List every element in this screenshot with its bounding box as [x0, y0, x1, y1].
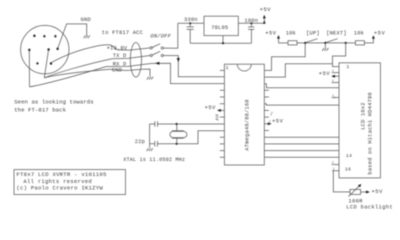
node dot gnd rail [222, 42, 224, 44]
wire RX D line [106, 63, 224, 83]
arrow down on TXD wire [177, 58, 180, 62]
svg-text:1: 1 [226, 65, 229, 71]
svg-text:100R: 100R [348, 198, 363, 204]
wire TX D line [112, 56, 150, 59]
supply +5V backlight [366, 191, 370, 194]
svg-text:+5V: +5V [265, 31, 277, 37]
svg-text:LCD 16x2: LCD 16x2 [360, 102, 366, 129]
svg-text:14: 14 [346, 153, 352, 159]
switch SW1 pole2 blade [152, 51, 160, 55]
wire IC pin R5 to LCD pin6 [264, 104, 339, 105]
ground near ellipse [147, 77, 153, 80]
node B NEXT left [324, 42, 326, 44]
svg-text:+5V: +5V [319, 71, 331, 77]
wire left vertical 22p [149, 124, 151, 148]
wire sweep from bottom-right pin to +13.8V line [51, 45, 118, 63]
wire IC data D4 [264, 136, 339, 138]
ground IC left pin [216, 115, 219, 120]
wire IC left gnd pin [220, 116, 225, 118]
resistor R3 100R [350, 189, 361, 194]
wire from mid-center pin down [44, 50, 48, 78]
ground under NEXT [322, 48, 328, 51]
wire +13.8V line [118, 48, 150, 50]
DIN pin dots middle row [28, 49, 30, 51]
node dot 100n [250, 22, 252, 24]
DIN connector circle [21, 25, 69, 73]
switch SW1 pole1 blade [152, 44, 160, 48]
wire GND line to chassis [110, 69, 150, 76]
IC U1 ATmega box [224, 64, 264, 165]
svg-text:78L05: 78L05 [211, 25, 228, 31]
capacitor C4 22p bottom plates [155, 141, 158, 147]
ground rail under 78L05 [190, 42, 251, 44]
wire sweep to TX D line [44, 59, 112, 78]
node A UP left [304, 42, 306, 44]
wire LCD pin16 to backlight resistor [333, 171, 350, 192]
svg-text:(c) Paolo Cravero IK1ZYW: (c) Paolo Cravero IK1ZYW [16, 184, 103, 191]
DIN pin cross 2 top [54, 35, 57, 38]
svg-text:based on Hitachi HD44780: based on Hitachi HD44780 [368, 92, 374, 174]
svg-text:XTAL is 11.0592 MHz: XTAL is 11.0592 MHz [123, 157, 185, 163]
wire stub ground under node B [324, 43, 326, 48]
svg-text:10k: 10k [354, 31, 364, 37]
svg-text:22p: 22p [135, 139, 145, 145]
title box [14, 170, 126, 195]
wire output rail [238, 22, 264, 24]
node dot 330n [189, 22, 191, 24]
wire sweep to GND line [44, 69, 110, 78]
wire button row baseline [305, 42, 346, 44]
node C NEXT right [345, 42, 347, 44]
wire resistor to +5V [361, 191, 366, 193]
wire IC data D5 [264, 143, 339, 145]
svg-text:Seen as looking towards: Seen as looking towards [14, 99, 94, 106]
wire IC pin R2 to LCD junction [264, 64, 332, 77]
svg-text:+5V: +5V [260, 7, 272, 13]
wire node A down to IC pin R1 [264, 43, 305, 71]
svg-text:16: 16 [345, 167, 351, 173]
wire from pole2 down to IC (TXD) [163, 56, 224, 77]
wire 78L05 gnd pin [222, 36, 224, 44]
svg-text:LCD backlight: LCD backlight [346, 205, 393, 211]
svg-text:[NEXT]: [NEXT] [326, 31, 347, 37]
svg-text:ON/OFF: ON/OFF [150, 33, 171, 39]
svg-text:+5V: +5V [372, 189, 384, 195]
wire R1 to node [297, 42, 305, 44]
ground top [84, 35, 90, 38]
pin number squiggles IC right [270, 112, 273, 123]
pin number squiggles LCD [332, 70, 335, 172]
wire GND net from DIN mid-right pin [58, 24, 87, 49]
svg-text:+5V: +5V [374, 31, 386, 37]
wire node C to R2 [346, 42, 356, 44]
svg-text:+5V: +5V [205, 105, 217, 111]
svg-text:1: 1 [346, 64, 349, 70]
wire IC data D6 [264, 150, 339, 152]
arrow on RX D [155, 62, 159, 65]
wire input rail to 78L05 [178, 22, 204, 24]
crystal Y1 [176, 124, 178, 144]
DIN pin bottom row [36, 62, 39, 65]
svg-text:[UP]: [UP] [306, 31, 320, 37]
svg-text:+13.8V: +13.8V [107, 46, 128, 52]
capacitor C3 22p top plates [155, 121, 158, 127]
svg-text:GND: GND [81, 17, 91, 23]
svg-text:10k: 10k [286, 31, 296, 37]
node dot xtal bottom [176, 143, 178, 145]
wire sweep to RX D line [30, 67, 107, 87]
LCD left pin stubs [333, 73, 339, 165]
wire to R1 [279, 42, 289, 44]
LCD module box [339, 63, 380, 178]
DIN pin dots top row [33, 35, 35, 37]
wire node C down to LCD pin1 junction [333, 43, 346, 67]
wire from pole1 to regulator rail [163, 23, 177, 48]
switch SW1 pole1 contacts [150, 47, 152, 49]
wire R2 to +5V [364, 38, 373, 43]
wire XTAL2 bottom [150, 131, 225, 144]
ground xtal [147, 148, 153, 151]
wire IC data D7 [264, 156, 339, 158]
svg-text:the FT-817 back: the FT-817 back [14, 107, 66, 114]
wire IC pin R3 to LCD pin4 [264, 84, 339, 88]
svg-text:ATmega48/88/168: ATmega48/88/168 [245, 99, 251, 151]
wire from mid-left pin down [28, 50, 30, 87]
svg-text:330n: 330n [184, 17, 198, 23]
cable ellipse [130, 43, 141, 78]
crystal circuit: wire XTAL1 [150, 123, 225, 125]
switch SW1 pole2 contacts [150, 54, 152, 56]
node dot xtal top [176, 123, 178, 125]
svg-text:to FT817 ACC: to FT817 ACC [102, 30, 143, 36]
IC U1 left pin stubs [220, 70, 225, 157]
IC U1 right pin stubs [264, 90, 269, 130]
regulator U2 78L05 [204, 16, 238, 35]
svg-text:+5V: +5V [272, 119, 284, 125]
